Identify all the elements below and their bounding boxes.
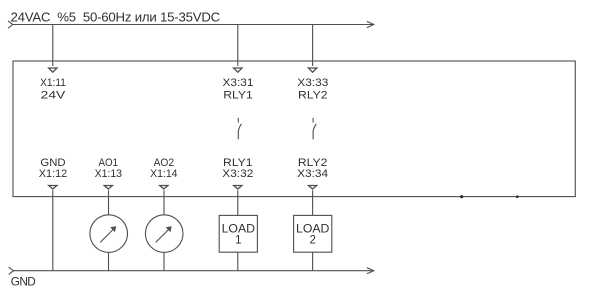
svg-text:24V: 24V: [41, 90, 66, 102]
wire meter M1 to ground bus: [108, 252, 110, 270]
svg-text:X1:13: X1:13: [95, 168, 122, 180]
terminal RLY2 X3:34 arrow: [309, 186, 317, 190]
svg-text:GND: GND: [11, 274, 35, 288]
wire drop to X3:33: [312, 25, 314, 67]
relay contact RLY2: [313, 118, 316, 139]
device outline controller: [13, 61, 575, 197]
wire RLY1 terminal to LOAD 1: [237, 190, 239, 215]
svg-text:1: 1: [235, 235, 241, 247]
wire AO2 to meter M2: [163, 190, 165, 215]
svg-text:24VAC %5 50-60Hz или 15-35VD: 24VAC %5 50-60Hz или 15-35VDC: [11, 10, 221, 25]
meter M1: [90, 215, 128, 253]
node arrow right (24V bus): [367, 21, 374, 27]
svg-text:X1:11: X1:11: [40, 77, 66, 89]
load box LOAD 1: [219, 215, 257, 252]
svg-text:X1:14: X1:14: [150, 168, 177, 180]
label X3:33 RLY2: [297, 77, 328, 102]
terminal X3:33 arrow: [308, 68, 316, 72]
terminal RLY1 X3:32 arrow: [234, 186, 242, 190]
terminal X3:31 arrow: [234, 68, 242, 72]
terminal AO2 X1:14 arrow: [160, 186, 168, 190]
node source chevron left (24V bus): [8, 21, 13, 28]
wire LOAD 1 to ground bus: [237, 252, 239, 271]
svg-text:X3:34: X3:34: [297, 168, 328, 180]
relay contact RLY1: [238, 118, 241, 139]
svg-text:X3:32: X3:32: [222, 168, 253, 180]
svg-text:X1:12: X1:12: [39, 168, 67, 180]
label X3:31 RLY1: [223, 77, 254, 102]
label AO2 X1:14: [150, 157, 177, 180]
wire LOAD 2 to ground bus: [312, 252, 314, 271]
junction dot B: [516, 195, 519, 198]
wire AO1 to meter M1: [108, 190, 110, 215]
node source chevron left (ground bus): [9, 267, 14, 274]
wire GND terminal to ground bus: [52, 190, 54, 270]
svg-text:RLY2: RLY2: [298, 90, 328, 102]
junction dot A: [460, 195, 463, 198]
wire 24V supply bus: [13, 24, 374, 26]
meter M2: [145, 215, 183, 253]
label RLY2 X3:34: [297, 157, 328, 180]
wire meter M2 to ground bus: [163, 252, 165, 270]
wire ground bus: [14, 270, 374, 272]
wire drop to X1:11: [52, 25, 54, 67]
label X1:11 24V: [40, 77, 66, 102]
svg-text:RLY1: RLY1: [223, 90, 253, 102]
wire drop to X3:31: [237, 25, 239, 67]
terminal GND X1:12 arrow: [49, 186, 57, 190]
svg-text:X3:33: X3:33: [297, 77, 328, 89]
terminal X1:11 arrow: [49, 68, 57, 72]
wire RLY2 terminal to LOAD 2: [312, 190, 314, 215]
label GND X1:12: [39, 157, 67, 180]
label AO1 X1:13: [95, 157, 122, 180]
node arrow right (ground bus): [367, 268, 374, 274]
label RLY1 X3:32: [222, 157, 253, 180]
svg-text:X3:31: X3:31: [223, 77, 254, 89]
terminal AO1 X1:13 arrow: [104, 186, 112, 190]
load box LOAD 2: [294, 215, 332, 252]
svg-text:2: 2: [309, 235, 315, 247]
